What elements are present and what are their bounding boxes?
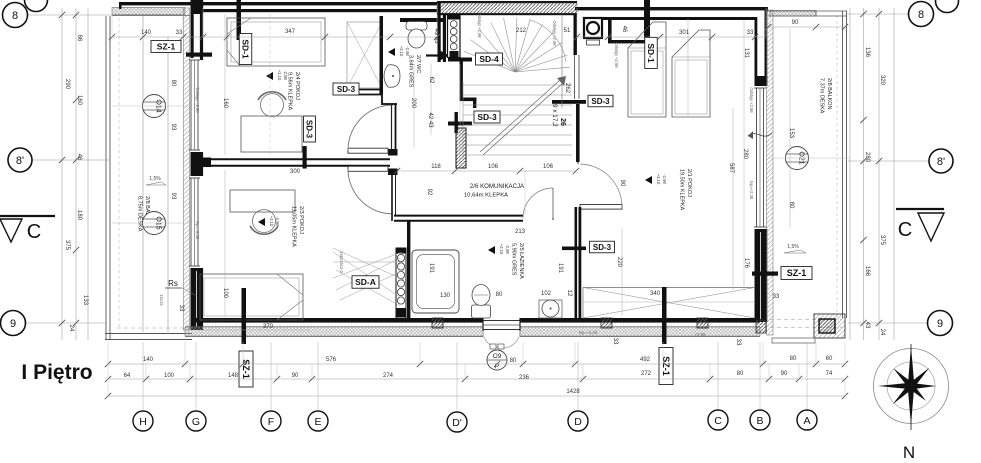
room label 2-1 xyxy=(679,169,693,211)
extension line density xyxy=(108,8,850,396)
washbasin wc xyxy=(384,65,400,88)
svg-text:SD-3: SD-3 xyxy=(337,85,356,94)
washing machine xyxy=(584,18,602,45)
wc left wall heavy xyxy=(380,16,384,94)
level marker 2-1 xyxy=(645,174,667,185)
svg-text:19,50m KLEPKA: 19,50m KLEPKA xyxy=(679,169,685,211)
svg-text:140: 140 xyxy=(143,357,154,363)
bottom wall pillar block a xyxy=(432,318,443,328)
svg-text:200: 200 xyxy=(410,98,416,109)
left wall pillar mid xyxy=(191,152,204,176)
window marker O15 xyxy=(143,212,166,235)
svg-text:10,64m KLEPKA: 10,64m KLEPKA xyxy=(464,193,508,199)
right balcony bottom dashed edge xyxy=(770,320,842,328)
svg-text:93: 93 xyxy=(170,124,176,131)
svg-text:106: 106 xyxy=(488,164,499,170)
svg-text:130: 130 xyxy=(440,293,451,299)
lintel SD-3 wall bar xyxy=(303,146,307,169)
svg-text:375: 375 xyxy=(64,240,70,251)
svg-text:80: 80 xyxy=(496,292,503,298)
svg-text:33: 33 xyxy=(178,305,184,312)
svg-text:33: 33 xyxy=(612,338,618,345)
svg-text:340: 340 xyxy=(650,291,661,297)
top party wall outer line xyxy=(119,2,437,5)
lintel SZ-1 right bar xyxy=(752,272,778,276)
svg-text:320: 320 xyxy=(879,75,885,86)
svg-text:42 43: 42 43 xyxy=(427,112,433,128)
label SD-3 stairside xyxy=(474,111,500,123)
room label 2-5 xyxy=(511,243,525,279)
bed room 2-4 xyxy=(227,18,325,66)
window O15 left xyxy=(189,178,200,266)
left wall pillar bottom xyxy=(191,268,204,330)
svg-text:8': 8' xyxy=(937,156,945,168)
toilet wc xyxy=(406,22,427,49)
svg-text:118: 118 xyxy=(431,164,441,170)
desk room 2-3 xyxy=(230,190,295,212)
level marker 2-3 xyxy=(258,216,280,227)
label SD-3 rot xyxy=(304,116,316,142)
window O21 right xyxy=(754,88,766,227)
top right wall corner xyxy=(765,7,768,12)
room label 2-3 xyxy=(291,206,305,247)
lintel SZ-1 bottom-right bar xyxy=(662,287,667,344)
svg-text:100: 100 xyxy=(164,373,175,379)
window O9 swing arcs xyxy=(483,331,520,348)
svg-text:136: 136 xyxy=(864,47,870,58)
svg-text:2/4 POKOJ: 2/4 POKOJ xyxy=(294,72,300,100)
svg-text:24: 24 xyxy=(68,325,74,332)
bed room 2-3 xyxy=(200,274,303,320)
window marker O9 xyxy=(487,344,507,370)
svg-text:33: 33 xyxy=(747,30,754,36)
level marker 2-4 xyxy=(266,70,288,81)
svg-text:1428: 1428 xyxy=(566,389,580,395)
hatched pillar mid stair xyxy=(456,128,466,168)
towel radiator xyxy=(396,248,406,318)
svg-text:33: 33 xyxy=(176,30,183,36)
label SD-3 corridor east xyxy=(588,95,613,107)
svg-text:46: 46 xyxy=(76,154,82,161)
window marker O21 xyxy=(786,147,809,170)
svg-text:24: 24 xyxy=(879,329,885,336)
closet X rectangle xyxy=(347,22,382,88)
svg-text:80: 80 xyxy=(510,358,517,364)
svg-text:60: 60 xyxy=(826,356,833,362)
svg-text:SZ-1: SZ-1 xyxy=(157,42,176,52)
level marker wc xyxy=(388,46,410,57)
svg-text:220: 220 xyxy=(616,257,622,268)
bathtub xyxy=(412,250,459,313)
svg-text:492: 492 xyxy=(640,357,651,363)
closet wall room 2-4 xyxy=(347,90,397,151)
door arc room 2-3 xyxy=(348,169,393,214)
svg-text:+3,10: +3,10 xyxy=(656,174,661,185)
room label 2-4 xyxy=(287,72,301,111)
svg-text:+2,98: +2,98 xyxy=(695,332,706,337)
lintel SD-3 bathroom bar xyxy=(562,247,586,251)
svg-text:166: 166 xyxy=(864,266,870,277)
svg-text:93: 93 xyxy=(170,193,176,200)
svg-text:375: 375 xyxy=(879,235,885,246)
svg-text:SD-3: SD-3 xyxy=(591,97,610,106)
svg-text:G: G xyxy=(192,416,200,428)
bathroom east wall xyxy=(575,207,582,318)
bathroom west wall xyxy=(407,221,410,318)
washer nook wall xyxy=(608,18,648,43)
svg-text:I Piętro: I Piętro xyxy=(21,361,92,384)
svg-text:280: 280 xyxy=(742,149,748,160)
wc step wall xyxy=(460,98,477,109)
svg-text:131: 131 xyxy=(743,48,749,59)
svg-text:191: 191 xyxy=(557,263,563,274)
svg-text:SD-4: SD-4 xyxy=(479,54,499,64)
lintel SD-3 stair horizontal bar xyxy=(552,100,586,104)
corridor-bathroom wall xyxy=(392,169,523,221)
svg-text:33: 33 xyxy=(735,339,741,346)
bathroom door xyxy=(523,188,553,220)
chair room 2-4 xyxy=(258,92,286,117)
svg-text:140: 140 xyxy=(141,30,152,36)
grid circle 9 left xyxy=(1,311,26,336)
radiator Rs marker xyxy=(165,279,197,296)
svg-text:C: C xyxy=(714,415,722,427)
svg-text:92: 92 xyxy=(426,189,432,196)
svg-text:-2,98: -2,98 xyxy=(662,174,667,184)
grid circle 8 right xyxy=(909,2,934,27)
door leaf room 2-4 xyxy=(348,148,388,153)
svg-text:D: D xyxy=(574,416,582,428)
svg-text:2/8 BALKON: 2/8 BALKON xyxy=(826,78,832,110)
grid circle 7 right partial xyxy=(936,0,959,13)
svg-text:2/5 ŁAZIENKA: 2/5 ŁAZIENKA xyxy=(518,243,524,279)
svg-text:8': 8' xyxy=(16,155,24,167)
window marker O14 xyxy=(143,95,166,118)
svg-text:74: 74 xyxy=(826,371,833,377)
right balcony step xyxy=(772,338,815,343)
svg-text:62: 62 xyxy=(428,77,434,84)
wall below vent shaft xyxy=(448,58,472,62)
svg-text:102: 102 xyxy=(541,291,552,297)
grid circle 7 left partial xyxy=(25,0,48,12)
svg-text:+3,10: +3,10 xyxy=(399,46,404,57)
right balcony corner pillar xyxy=(814,314,845,338)
terrace X area room 2-1 xyxy=(583,288,755,319)
left exterior wall insulation strip xyxy=(184,8,190,330)
right exterior wall bottom segment xyxy=(755,229,768,322)
svg-text:Odstęp +2,98: Odstęp +2,98 xyxy=(749,87,754,113)
svg-text:90: 90 xyxy=(792,20,799,26)
right wall insulation bottom cap xyxy=(756,320,766,333)
svg-text:133: 133 xyxy=(82,295,88,306)
svg-text:8: 8 xyxy=(12,10,18,22)
svg-text:46: 46 xyxy=(621,26,627,33)
svg-text:9: 9 xyxy=(937,318,943,330)
chimney bar SD-1 left xyxy=(237,0,242,40)
svg-text:11,05m KLEPKA: 11,05m KLEPKA xyxy=(291,206,297,247)
svg-text:80: 80 xyxy=(170,80,176,87)
svg-text:160: 160 xyxy=(76,95,82,106)
stair side wall stub xyxy=(448,122,472,126)
svg-text:180: 180 xyxy=(76,210,82,221)
door leaf room 2-3 xyxy=(348,166,388,171)
svg-text:SZ-1: SZ-1 xyxy=(661,356,671,376)
label SZ-1 bottom-left xyxy=(239,351,253,387)
svg-text:C: C xyxy=(898,219,912,241)
stair label xyxy=(551,104,566,127)
svg-text:370: 370 xyxy=(263,324,274,330)
label SZ-1 right wall xyxy=(781,267,812,280)
svg-text:153: 153 xyxy=(788,128,794,139)
svg-text:1,5%: 1,5% xyxy=(787,244,799,250)
svg-text:160: 160 xyxy=(222,98,228,109)
svg-text:212: 212 xyxy=(516,28,527,34)
svg-text:E: E xyxy=(314,416,321,428)
svg-text:SD-A: SD-A xyxy=(355,277,376,287)
room label 2-6 xyxy=(464,183,525,199)
window O14 left xyxy=(189,60,200,150)
svg-text:5,90m GRES: 5,90m GRES xyxy=(511,243,517,276)
label SD-4 wc xyxy=(476,53,503,65)
label SD-3 bathroom xyxy=(590,241,615,253)
svg-text:274: 274 xyxy=(383,373,394,379)
top wall room 2-1 outer line xyxy=(575,7,767,10)
bottom wall window O9 gap xyxy=(483,318,520,337)
svg-text:80: 80 xyxy=(788,202,794,209)
svg-text:Odstęp +2,98: Odstęp +2,98 xyxy=(614,42,619,68)
svg-text:SD-1: SD-1 xyxy=(646,43,656,63)
washbasin bathroom xyxy=(539,300,562,318)
svg-text:Rs: Rs xyxy=(168,279,178,288)
bed A room 2-1 xyxy=(628,22,666,117)
svg-text:301: 301 xyxy=(679,30,690,36)
radiator leader lines bathroom xyxy=(333,248,404,306)
stair right wall upper xyxy=(574,14,580,99)
entrance arrow xyxy=(426,51,449,61)
svg-text:49 93: 49 93 xyxy=(433,28,439,44)
party wall stub top xyxy=(438,2,447,62)
svg-text:8: 8 xyxy=(918,9,924,21)
svg-text:SD-1: SD-1 xyxy=(240,39,250,59)
svg-text:SD-3: SD-3 xyxy=(593,243,612,252)
svg-text:N: N xyxy=(903,443,915,462)
room label 2-8 left xyxy=(137,196,151,232)
svg-text:80: 80 xyxy=(737,371,744,377)
svg-text:300: 300 xyxy=(290,169,301,175)
bottom exterior wall heavy line xyxy=(192,318,760,323)
bottom wall pillar block b xyxy=(601,318,612,328)
svg-text:26: 26 xyxy=(559,118,566,126)
svg-text:Odstęp +2,98: Odstęp +2,98 xyxy=(477,12,482,38)
svg-text:-2,98: -2,98 xyxy=(405,46,410,56)
desk room 2-4 xyxy=(241,116,302,152)
grid circle 8 left xyxy=(3,3,28,28)
svg-text:7,37m DESKA: 7,37m DESKA xyxy=(819,78,825,114)
svg-text:51: 51 xyxy=(564,28,571,34)
door arc room 2-4 xyxy=(348,105,393,150)
tiny annotation texts xyxy=(159,12,754,337)
top party wall corner stub xyxy=(119,2,122,9)
svg-text:Np=+2,38: Np=+2,38 xyxy=(195,221,200,240)
room label 2-7 xyxy=(408,55,422,88)
room label 2-8 right xyxy=(819,78,833,114)
svg-text:90: 90 xyxy=(292,373,299,379)
svg-text:33: 33 xyxy=(773,294,780,300)
top wall room 2-1 inner line xyxy=(592,17,756,20)
svg-text:2/1 POKOJ: 2/1 POKOJ xyxy=(686,169,692,197)
svg-text:9: 9 xyxy=(10,318,16,330)
interior wall rooms 2-4 2-3 xyxy=(203,158,390,168)
svg-text:86: 86 xyxy=(76,35,82,42)
svg-text:347: 347 xyxy=(285,29,296,35)
svg-text:H: H xyxy=(139,416,147,428)
svg-text:15x15: 15x15 xyxy=(159,294,164,306)
corridor east wall xyxy=(576,104,580,162)
svg-text:3,64m GRES: 3,64m GRES xyxy=(408,55,414,88)
left exterior wall top segment xyxy=(191,0,204,60)
right exterior wall insulation strip xyxy=(767,10,774,335)
svg-text:90: 90 xyxy=(781,371,788,377)
svg-text:150x45x2,0: 150x45x2,0 xyxy=(339,251,344,273)
svg-text:SZ-1: SZ-1 xyxy=(241,359,251,379)
svg-text:Odstęp +2,98: Odstęp +2,98 xyxy=(195,87,200,113)
svg-text:D': D' xyxy=(452,417,462,429)
slope arrow left xyxy=(146,176,166,185)
bottom wall pillar block c xyxy=(697,318,708,328)
svg-text:+3,10: +3,10 xyxy=(499,244,504,255)
svg-text:213: 213 xyxy=(515,229,526,235)
svg-text:12: 12 xyxy=(566,290,572,297)
svg-text:C: C xyxy=(27,221,41,243)
label SD-1 room 2-1 xyxy=(645,38,658,69)
svg-text:64: 64 xyxy=(124,373,131,379)
grid circle 9 right xyxy=(928,311,953,336)
svg-text:9 x 17,2: 9 x 17,2 xyxy=(551,104,558,127)
svg-text:290: 290 xyxy=(64,79,70,90)
label SD-1 top left xyxy=(239,34,252,65)
svg-text:SD-3: SD-3 xyxy=(477,112,497,122)
svg-text:Np=+2,38: Np=+2,38 xyxy=(749,181,754,200)
compass rose xyxy=(874,344,949,430)
grid circle 8p right xyxy=(929,149,953,173)
left balcony outer edge lines xyxy=(106,16,168,339)
door jamb block centre xyxy=(388,149,398,175)
svg-text:100: 100 xyxy=(222,288,228,299)
svg-text:F: F xyxy=(268,416,274,428)
svg-text:280: 280 xyxy=(864,152,870,163)
right balcony edge lines xyxy=(837,11,847,318)
grid letter circles bottom xyxy=(133,410,817,432)
svg-text:B: B xyxy=(756,415,763,427)
door room 2-1 xyxy=(578,162,622,209)
svg-text:-2,98: -2,98 xyxy=(283,70,288,80)
section marker C left xyxy=(0,216,55,243)
chair room 2-3 xyxy=(250,210,278,235)
level marker 2-5 xyxy=(488,244,510,255)
svg-text:2/7 WC: 2/7 WC xyxy=(415,55,421,73)
lintel SZ-1 top left bar xyxy=(186,53,212,57)
svg-text:SZ-1: SZ-1 xyxy=(787,268,807,278)
wc right wall xyxy=(460,60,463,100)
right exterior wall top segment xyxy=(755,10,768,86)
svg-text:+3,10: +3,10 xyxy=(277,70,282,81)
left balcony bottom edge xyxy=(105,328,192,340)
vent shaft column xyxy=(448,15,461,58)
svg-text:191: 191 xyxy=(428,263,434,274)
staircase xyxy=(463,14,572,158)
dimension numbers rotated xyxy=(64,26,885,346)
svg-text:43: 43 xyxy=(864,322,870,329)
svg-text:Odstęp +2,98: Odstęp +2,98 xyxy=(552,20,557,46)
svg-text:272: 272 xyxy=(641,371,652,377)
bed B room 2-1 xyxy=(672,30,710,117)
left balcony top parapet hatch xyxy=(112,8,190,16)
svg-text:A: A xyxy=(803,415,810,427)
svg-text:-2,98: -2,98 xyxy=(275,216,280,226)
svg-text:2/6 KOMUNIKACJA: 2/6 KOMUNIKACJA xyxy=(470,183,525,190)
dimension numbers horizontal xyxy=(124,20,833,395)
section marker C right xyxy=(896,209,944,241)
grid circle 8p left xyxy=(8,148,32,172)
svg-text:80: 80 xyxy=(790,356,797,362)
slope arrow right xyxy=(784,244,806,253)
label SZ-1 top left xyxy=(151,41,181,53)
top wall hatched band over stair xyxy=(437,1,577,15)
right balcony top parapet hatch xyxy=(768,11,847,17)
svg-text:587: 587 xyxy=(728,163,734,174)
svg-text:8,75m DESKA: 8,75m DESKA xyxy=(137,196,143,232)
toilet bathroom xyxy=(472,285,491,319)
wc top wall xyxy=(400,18,444,22)
svg-text:236: 236 xyxy=(519,375,530,381)
svg-text:1,5%: 1,5% xyxy=(149,176,161,182)
label SZ-1 bottom-right xyxy=(659,348,673,385)
svg-text:SD-3: SD-3 xyxy=(305,120,314,139)
svg-text:-2,98: -2,98 xyxy=(505,244,510,254)
chimney bar SD-1 right xyxy=(644,0,650,38)
label SD-A bathroom xyxy=(352,276,379,289)
svg-text:2/3 POKOJ: 2/3 POKOJ xyxy=(298,206,304,234)
svg-text:262: 262 xyxy=(564,83,570,94)
svg-text:106: 106 xyxy=(543,164,554,170)
svg-text:176: 176 xyxy=(743,258,749,269)
window O21 squiggle xyxy=(748,131,772,139)
lintel SZ-1 bottom-left bar xyxy=(242,288,247,344)
svg-text:90: 90 xyxy=(619,180,625,187)
svg-text:Np=+2,38: Np=+2,38 xyxy=(579,330,598,335)
svg-text:+3,10: +3,10 xyxy=(269,216,274,227)
top party wall inner line xyxy=(203,9,437,12)
bottom exterior wall insulation band xyxy=(185,327,760,337)
label SD-3 closet xyxy=(333,83,359,95)
svg-text:148: 148 xyxy=(228,373,239,379)
lintel SD-3 wc vertical bar xyxy=(455,112,458,133)
svg-text:576: 576 xyxy=(326,357,337,363)
